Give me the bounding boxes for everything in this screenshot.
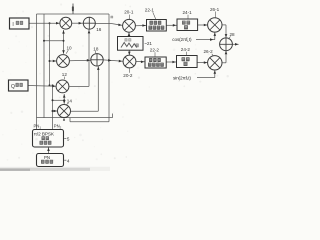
label PN2 [54,124,62,130]
input box Q-signal [9,80,29,91]
svg-text:~21: ~21 [144,41,152,46]
svg-text:5: 5 [67,137,70,142]
label PN1 [34,124,42,130]
wire bottom return lower [70,118,109,122]
wire adder 18 to mixer 20-2 [103,59,123,62]
svg-text:I: I [12,22,13,28]
label 12 [62,72,68,79]
wire 24-2 to mixer 26-2 [197,61,208,64]
filter box 22-2 [145,57,166,68]
label 26-1 [210,7,220,18]
label 24-1 [183,10,193,19]
label 28 [228,32,235,39]
BPSK signal generator box 3 [33,130,64,148]
wire vertical bus 3 [49,22,51,86]
label 4 [64,158,70,163]
wire cos carrier to mixer 26-1 [196,32,216,41]
svg-text:12: 12 [62,72,68,77]
adder 18 [91,54,103,66]
scan noise speckle [2,3,229,161]
wire filter 22-2 to 24-2 [166,61,176,64]
wire bottom line into mixer 14 [63,118,65,121]
oscillator box 21 [118,37,144,51]
mixer 20-2 [123,55,136,68]
wire Q-signal to mixer 12 [28,85,56,88]
wire mixer 26-2 to adder 28 [222,51,227,63]
wire PN generator to BPSK generator [47,147,50,153]
wire mixer 10 to adder 18 [70,59,91,62]
wire tee PN to mixers 8 and 10 [43,30,65,54]
mixer 26-2 [208,56,222,70]
label 1 apparatus designator [72,4,74,15]
wire sin carrier to mixer 26-2 [197,70,216,78]
speck mark [111,16,114,19]
wire right vertical net [108,14,110,122]
wire stub to mixer 14 [52,110,58,113]
wire adder 16 to mixer 20-1 [96,23,123,26]
mixer 12 [56,80,69,93]
svg-text:22-2: 22-2 [150,48,160,53]
wire bottom return upper [37,114,113,118]
svg-text:16: 16 [96,27,102,32]
label 22-1 [145,8,156,20]
label 24-2 [181,47,191,55]
mixer 14 [58,105,71,118]
wire mixer 26-1 to adder 28 [222,25,227,38]
wire oscillator to mixer 20-2 [128,50,131,55]
svg-text:PN2: PN2 [54,124,62,130]
svg-text:22-1: 22-1 [145,8,155,13]
amp box 24-1 [177,19,198,31]
wire mixer 8 to adder 16 [72,22,83,25]
label 26-2 [204,49,214,56]
wire vertical PN bus 1 [36,14,38,129]
adder 28 [220,38,233,51]
scan smudge bottom [0,167,110,171]
wire 24-1 to mixer 26-1 [198,24,208,27]
label 22-2 [150,48,160,57]
adder 16 [83,17,95,29]
mixer 20-1 [123,19,136,32]
svg-text:PN: PN [44,155,50,160]
wire vertical PN bus 2 [43,14,45,118]
svg-text:20-2: 20-2 [123,73,133,78]
svg-text:18: 18 [93,46,99,51]
svg-text:PN1: PN1 [34,124,42,130]
wire filter 22-1 to 24-1 [166,24,177,27]
svg-text:24-2: 24-2 [181,47,191,52]
PN code generator box 4 [37,154,64,167]
svg-text:24-1: 24-1 [183,10,193,15]
wire top horizontal net [37,13,110,15]
svg-text:28: 28 [230,32,236,37]
wire mixer 12 to adder 16 [69,30,90,87]
label 18 [93,46,99,53]
svg-text:10: 10 [67,45,73,50]
label 16 [96,27,102,32]
label 14 [67,98,73,104]
label 20-1 [124,9,134,19]
wire stub to mixer 10 [49,60,57,63]
label sin carrier [173,75,191,81]
mixer 8 [60,17,72,29]
label 21 [144,41,152,46]
svg-text:4: 4 [67,158,70,163]
label 5 [64,137,70,142]
amp box 24-2 [177,56,198,68]
input box I-signal [10,18,30,29]
wire tee PN to mixers 12 and 14 [52,94,66,104]
wire mixer 20-2 to filter 22-2 [136,61,145,64]
label 10 [66,45,72,53]
svg-text:14: 14 [67,98,73,103]
wire oscillator to mixer 20-1 [128,32,131,36]
label 20-2 [123,68,133,78]
label cos carrier [172,37,192,43]
svg-text:π/2 BPSK: π/2 BPSK [34,131,55,136]
mixer 10 [57,55,70,68]
wire mixer 14 to adder 18 [71,66,100,111]
filter box 22-1 [147,20,167,32]
svg-text:20-1: 20-1 [124,9,134,14]
wire I-signal to mixer 8 [29,22,60,25]
wire mixer 20-1 to filter 22-1 [136,24,147,27]
svg-text:26-1: 26-1 [210,7,220,12]
svg-text:Q: Q [11,84,15,90]
mixer 26-1 [208,18,222,32]
wire vertical bus 4 [52,84,54,129]
wire adder 28 output [232,43,238,46]
